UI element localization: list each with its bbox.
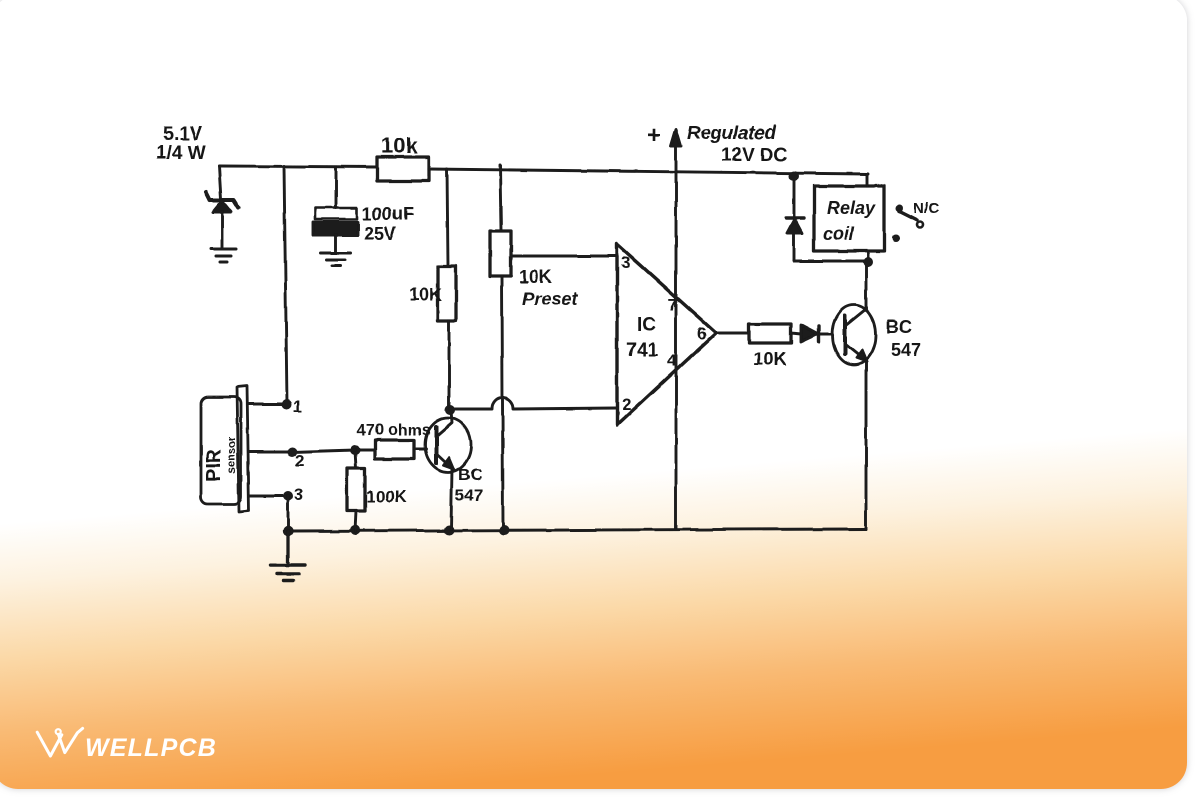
svg-text:6: 6 [697,324,706,343]
svg-text:3: 3 [294,485,303,504]
svg-text:10K: 10K [519,267,552,287]
svg-text:+: + [647,122,661,149]
svg-text:2: 2 [295,451,304,470]
arrow supply [671,129,681,146]
node rail junctions [350,525,360,535]
svg-text:741: 741 [626,340,658,361]
svg-text:Preset: Preset [522,289,578,309]
svg-text:5.1V: 5.1V [163,124,202,145]
transistor Q2 BC547 [833,263,876,529]
node pin2 [287,447,297,457]
svg-text:547: 547 [891,340,921,360]
logo WELLPCB [37,728,82,756]
svg-text:WELLPCB: WELLPCB [85,734,217,762]
node pin1 [282,399,292,409]
wire pin1 stub [249,403,287,406]
ground capacitor [321,253,351,266]
svg-text:2: 2 [622,395,631,414]
svg-text:100uF: 100uF [362,204,414,224]
op-amp U1 IC741 [617,244,716,425]
transistor Q1 BC547 [425,410,471,529]
svg-text:Regulated: Regulated [687,123,776,144]
potentiometer R3 10K preset [490,231,511,276]
svg-text:Relay: Relay [827,198,876,218]
svg-text:10k: 10k [381,133,418,158]
wire preset top [500,165,501,231]
PIR sensor module [201,386,249,512]
wire pin3 down [287,496,290,531]
wire top rail right [429,169,868,174]
wire pin2 with hop [450,398,617,409]
svg-text:coil: coil [823,224,855,244]
wire 100K bottom [355,511,356,531]
wire top rail left [219,166,377,167]
wire pin3 stub [249,495,288,498]
svg-text:547: 547 [455,486,483,505]
node relay bottom junction [863,257,873,267]
ground main [271,531,305,581]
relay coil K1 [814,186,884,251]
resistor R4 10K output [749,324,791,343]
node rail left junction [283,526,293,536]
resistor R2 10K [438,266,456,321]
diode D3 freewheel [786,218,804,233]
node relay top junction [789,171,799,181]
svg-text:sensor: sensor [226,436,238,474]
svg-text:3: 3 [621,253,630,272]
wire relay top [866,174,869,186]
svg-text:PIR: PIR [203,448,225,482]
zener diode D1 5.1V [206,192,238,249]
svg-text:10K: 10K [409,285,442,305]
diode D2 [801,325,833,342]
resistor R1 10k [377,157,429,181]
wire 470 to base [414,448,426,451]
wire zener stem [219,166,221,199]
ground zener [211,249,236,262]
wire relay branch left [793,176,796,261]
wire pin2 stub [249,450,355,452]
svg-text:10K: 10K [753,349,786,369]
wire capacitor stem [335,167,338,208]
resistor R6 100K [347,468,365,511]
wire bottom rail [288,529,866,531]
node junction 100K [350,445,360,455]
svg-text:100K: 100K [366,487,407,506]
svg-text:BC: BC [886,317,912,337]
capacitor C1 100uF electrolytic [313,208,358,253]
resistor R5 470 ohms [375,440,414,459]
svg-text:IC: IC [637,315,656,336]
wire 10K resistor top [447,169,448,266]
svg-text:N/C: N/C [913,200,939,217]
wire 100K top [355,450,356,468]
wire op-amp output [716,332,749,335]
wire +V supply vertical [675,141,678,529]
node pin3 [283,491,293,501]
wire preset bottom to rail [502,276,503,529]
wire relay bottom [794,251,868,262]
wire PIR pin1 vertical [284,166,287,404]
svg-text:1/4 W: 1/4 W [156,143,206,164]
node collector junction [445,405,455,415]
svg-text:BC: BC [458,465,483,484]
wire 10K resistor bottom [448,321,451,409]
wire preset wiper to pin3 [511,255,617,258]
svg-text:12V DC: 12V DC [721,145,788,166]
svg-text:25V: 25V [364,224,396,244]
svg-text:470 ohms: 470 ohms [357,422,431,439]
switch N/C contact [892,205,923,243]
svg-text:1: 1 [293,397,302,416]
wire pin2 node to 470 [355,449,375,452]
wire output to diode [791,333,801,334]
